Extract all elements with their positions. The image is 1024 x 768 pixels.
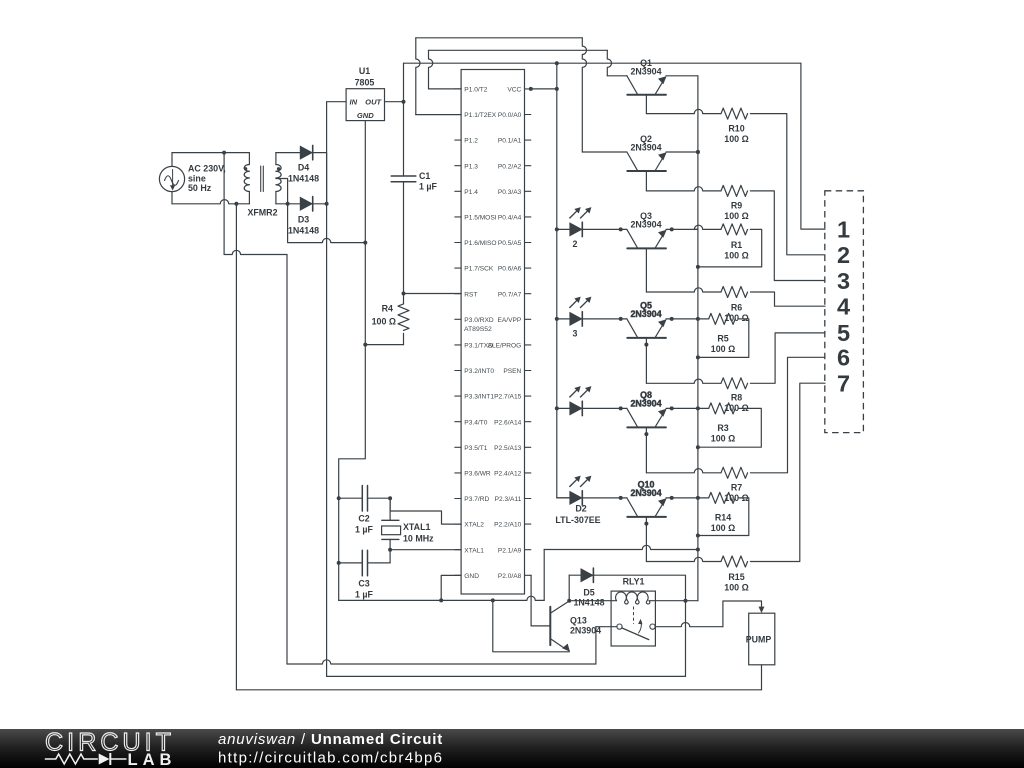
svg-text:6: 6 [837,345,850,371]
wire crystal bottom to C3 row [389,550,391,563]
svg-text:R4: R4 [382,304,393,314]
wire R5 loop back to chain [698,319,749,358]
svg-text:P1.2: P1.2 [464,138,478,145]
svg-text:100 Ω: 100 Ω [724,583,748,593]
svg-text:ALE/PROG: ALE/PROG [488,343,522,350]
resistor R10 100ohm [721,108,748,119]
wire MCU VCC pin to anode bus [531,88,557,90]
wire secondary bottom to D3 [276,203,300,205]
svg-text:XTAL1: XTAL1 [464,547,484,554]
svg-text:P3.4/T0: P3.4/T0 [464,419,487,426]
junction dot R4 return on GND drop [363,343,367,347]
svg-text:C2: C2 [358,514,369,524]
svg-text:P0.7/A7: P0.7/A7 [498,291,522,298]
junction dot gnd tie on chain [696,548,700,552]
CircuitLab logo symbol [45,754,98,764]
wire Q8 base lead [645,427,647,472]
wire secondary center tap [276,179,288,204]
svg-text:100 Ω: 100 Ω [724,211,748,221]
svg-text:100 Ω: 100 Ω [724,251,748,261]
wire Q8 row to R3 [698,407,709,409]
svg-text:P1.4: P1.4 [464,189,478,196]
wire R15 to connector pin 7 [750,383,825,561]
wire U1 OUT to VCC riser [385,101,404,103]
wire C2 right to crystal node [368,497,390,499]
wire R8 to connector pin 5 [750,333,825,383]
svg-text:2N3904: 2N3904 [630,399,661,409]
svg-text:1N4148: 1N4148 [573,597,604,607]
junction dot Q8 base pair [644,432,648,436]
wire relay output riser to coil-right node [685,601,687,677]
svg-text:OUT: OUT [365,97,382,106]
svg-text:P3.3/INT1: P3.3/INT1 [464,394,494,401]
svg-text:anuviswan / Unnamed Circuit: anuviswan / Unnamed Circuit [218,731,443,748]
wire LED D5 cathode to Q10 [582,497,627,499]
svg-text:C1: C1 [419,171,430,181]
LED D2 symbol [570,223,582,236]
svg-text:R15: R15 [728,572,744,582]
junction dot crystal top node [388,496,392,500]
wire LED D4 cathode to Q8 [582,407,627,409]
wire C3 left lead [339,562,362,564]
junction dot AC bottom / left long drop [234,202,238,206]
transformer phase dot secondary [277,167,280,170]
LED D3 row anode wire [557,318,570,320]
svg-text:U1: U1 [359,66,370,76]
junction dot emitter tap Q3 [670,227,674,231]
svg-text:R10: R10 [728,124,744,134]
wire AC bottom rail (hop over down-wire) [172,200,249,204]
relay actuation dashed line [633,607,635,625]
wire R6 to connector pin 4 [750,292,825,306]
wire tap-down long route to lower-left [223,153,225,255]
svg-text:P1.7/SCK: P1.7/SCK [464,266,494,273]
wire pump bottom to line C [761,665,763,690]
resistor R9 100ohm [721,185,748,196]
junction dot AC top / tap-down wire [222,151,226,155]
svg-text:P0.4/A4: P0.4/A4 [498,215,522,222]
svg-text:R6: R6 [731,303,742,313]
wire P1.0 to Q1 collector (inner top loop) [429,88,462,90]
svg-text:7: 7 [837,371,850,397]
junction dot XTAL1 node [388,548,392,552]
wire bottom line A to relay switch common [287,660,596,664]
wire relay NO contact to pump (hop over riser) [655,623,723,627]
svg-text:P3.7/RD: P3.7/RD [464,496,489,503]
svg-text:1 µF: 1 µF [355,590,374,600]
junction dot emitter tap Q8 [670,406,674,410]
svg-text:P1.1/T2EX: P1.1/T2EX [464,112,496,119]
voltage regulator U1 7805 box [346,89,384,121]
svg-text:3: 3 [573,328,578,338]
pump feed arrowhead [759,607,765,613]
wire +5V top rail [404,62,801,64]
junction dot collector tap Q8 [619,406,623,410]
svg-text:GND: GND [357,111,374,120]
relay RLY1 box [611,591,655,646]
junction dot emitter tap Q5 [670,317,674,321]
wire Q5 row to R5 [698,318,709,320]
wire Q10 base lead [645,517,647,562]
svg-text:P1.6/MISO: P1.6/MISO [464,240,496,247]
wire crystal node to XTAL2 pin [390,498,461,524]
LED D5 row anode wire [557,497,570,499]
crystal XTAL1 10MHz [389,498,391,520]
svg-text:3: 3 [837,268,850,294]
wire R3 loop back to chain [698,408,761,447]
svg-text:2: 2 [837,242,850,268]
junction dot Q13 emitter return [491,598,495,602]
wire D4 cathode to rectifier node [313,153,327,204]
wire U1 IN from rectifier node [327,102,347,204]
svg-text:P3.6/WR: P3.6/WR [464,471,491,478]
wire Q8 base to R7 (hop over chain) [646,469,721,473]
svg-text:7805: 7805 [355,78,375,88]
pump box [749,613,775,665]
wire RST pin to C1/R4 node [404,293,462,295]
svg-text:P2.2/A10: P2.2/A10 [494,522,521,529]
junction dot C3 bus [337,561,341,565]
svg-text:2: 2 [573,239,578,249]
wire Q3 base lead [645,248,647,292]
wire secondary top to D4 [276,152,300,154]
svg-text:IN: IN [350,97,358,106]
relay switch poles [617,624,622,629]
LED D5 symbol [570,492,582,505]
junction dot collector tap Q10 [619,496,623,500]
svg-text:P2.1/A9: P2.1/A9 [498,547,522,554]
wire emitter chain vertical [697,76,699,601]
svg-text:C3: C3 [358,579,369,589]
wire bottom line B to relay output riser [327,675,686,677]
svg-text:P0.3/A3: P0.3/A3 [498,189,522,196]
svg-text:P2.5/A13: P2.5/A13 [494,445,521,452]
svg-text:R1: R1 [731,240,742,250]
svg-text:AT89S52: AT89S52 [464,326,492,333]
transformer XFMR2 secondary winding [275,153,277,165]
svg-text:P2.7/A15: P2.7/A15 [494,394,521,401]
wire bottom line C to pump bottom [236,689,761,691]
wire pump feed [723,601,762,627]
resistor R4 100ohm (vertical) [403,294,405,304]
junction dot anode bus row Q8 [555,406,559,410]
wire GND rail under MCU (hop over Q13 base riser) [339,596,545,600]
LED D2 row anode wire [557,228,570,230]
wire Q10 emitter junction [666,497,698,499]
junction dot VCC bus top [555,87,559,91]
resistor R6 100ohm [721,287,748,298]
wire Q1 base to R10 (hop over chain) [646,109,721,113]
LED D4 row anode wire [557,407,570,409]
svg-text:P0.1/A1: P0.1/A1 [498,138,522,145]
resistor R1 100ohm [721,224,748,235]
svg-text:P2.3/A11: P2.3/A11 [495,496,522,503]
svg-text:R8: R8 [731,393,742,403]
junction dot anode bus row Q5 [555,317,559,321]
svg-text:http://circuitlab.com/cbr4bp6: http://circuitlab.com/cbr4bp6 [218,750,443,767]
wire R14 loop back to chain [698,498,749,536]
LED D3 symbol [570,313,582,326]
wire Q2 collector drop [582,38,586,152]
junction dot coil-right node [684,599,688,603]
wire gnd tie to emitter chain (hop over Q10 base) [544,545,698,549]
svg-text:Q13: Q13 [570,616,587,626]
wire jog right (hop over x236 drop) [224,250,287,254]
wire switch common riser [595,627,597,664]
wire Q5 base lead [645,338,647,383]
junction dot collector tap Q3 [619,227,623,231]
wire P2.0/A8 riser to rail end [543,550,545,601]
junction dot RST node [402,292,406,296]
svg-text:XTAL2: XTAL2 [464,522,484,529]
svg-text:R5: R5 [717,334,728,344]
transistor Q5 2N3904 [627,337,666,339]
transformer XFMR2 core [260,166,262,192]
junction dot emitter tap Q10 [670,496,674,500]
svg-text:P2.6/A14: P2.6/A14 [494,419,521,426]
wire rectifier node long drop to line B [326,204,328,677]
MCU pin stubs [455,88,461,90]
wire AC source left vertical bottom [171,192,173,204]
svg-text:100 Ω: 100 Ω [372,317,396,327]
junction dot rectifier output node [325,202,329,206]
svg-text:P0.5/A5: P0.5/A5 [498,240,522,247]
wire LED D3 cathode to Q5 [582,318,627,320]
svg-text:P2.4/A12: P2.4/A12 [494,471,521,478]
svg-text:50 Hz: 50 Hz [188,183,212,193]
svg-text:P3.2/INT0: P3.2/INT0 [464,368,494,375]
resistor R8 100ohm [721,378,748,389]
wire Q3 emitter row to R1 (hop over chain) [694,225,721,229]
relay coil [616,592,650,604]
wire P2.0 pin to Q13 base riser [530,574,532,576]
wire Q2 base lead [645,171,647,191]
svg-text:LTL-307EE: LTL-307EE [555,515,600,525]
wire relay common to switch riser [596,626,617,628]
svg-text:VCC: VCC [507,87,521,94]
wire Q2 emitter to chain [666,151,698,153]
wire D5 cathode to coil-right node [593,575,685,601]
svg-text:2N3904: 2N3904 [630,309,661,319]
wire Q13 base riser [530,575,532,626]
footer bar [0,729,1024,768]
svg-text:P0.2/A2: P0.2/A2 [498,163,522,170]
junction dot Q10 base pair [644,522,648,526]
wire Q5 base to R8 (hop over chain) [646,379,721,383]
diode D4 1N4148 [300,146,312,159]
wire Q10 base to R15 (hop over chain) [646,557,721,561]
wire Q8 emitter junction [666,407,698,409]
svg-text:GND: GND [464,573,479,580]
svg-text:D3: D3 [298,215,309,225]
wire MCU GND pin drop [441,575,461,600]
svg-text:2N3904: 2N3904 [630,488,661,498]
wire +5V to connector pin 1 [801,63,825,229]
wire Q13 emitter return to GND rail [493,600,570,651]
junction dots on emitter chain [696,150,700,154]
svg-text:EA/VPP: EA/VPP [497,317,521,324]
svg-text:R14: R14 [715,513,731,523]
wire VCC riser to +5V rail [403,63,405,101]
svg-text:P1.5/MOSI: P1.5/MOSI [464,215,496,222]
junction dot Q5 base pair [644,343,648,347]
wire center-tap to U1 GND (hop over rectifier drop) [288,204,366,243]
junction dot GND pin drop [439,598,443,602]
wire Q13 collector node to D5 anode [568,575,570,601]
capacitor C1 1uF [403,102,405,176]
svg-text:P1.3: P1.3 [464,163,478,170]
svg-text:1N4148: 1N4148 [288,226,319,236]
wire Q1 emitter to chain [666,75,698,77]
wire XTAL1 pin row [390,549,461,551]
svg-text:sine: sine [188,174,206,184]
resistor R14 100ohm [709,492,736,503]
junction dot Q1/Q2 emitters [696,150,700,154]
diode D3 1N4148 [300,198,312,211]
svg-text:RLY1: RLY1 [623,577,645,587]
svg-text:1: 1 [837,216,850,242]
resistor R15 100ohm [721,556,748,567]
microcontroller U2 AT89S52 box [461,70,524,595]
junction dot U1 OUT / C1 [402,100,406,104]
wire R10 to connector pin 2 [750,114,825,255]
svg-text:10 MHz: 10 MHz [403,534,434,544]
junction dot C2 bus [337,496,341,500]
svg-text:P0.0/A0: P0.0/A0 [498,112,522,119]
wire AC top rail [172,152,249,154]
svg-text:P1.0/T2: P1.0/T2 [464,87,487,94]
transistor Q3 2N3904 [627,247,666,249]
diode D5 1N4148 (flyback) [569,574,581,576]
svg-text:D2: D2 [575,504,586,514]
svg-text:1N4148: 1N4148 [288,174,319,184]
transformer XFMR2 primary winding [248,153,250,165]
junction dot +5V rail / MCU VCC drop [555,61,559,65]
wire Q10 row to R14 [698,497,709,499]
svg-text:P3.0/RXD: P3.0/RXD [464,317,494,324]
svg-text:2N3904: 2N3904 [630,220,661,230]
svg-text:PSEN: PSEN [503,368,521,375]
svg-text:R3: R3 [717,423,728,433]
wire Q3 base to R6 (hop over chain) [646,288,721,292]
svg-text:2N3904: 2N3904 [630,143,661,153]
wire long vertical x287 down to bottom line A [286,255,288,665]
LED D4 symbol [570,402,582,415]
wire R4 bottom to GND drop [365,344,403,346]
wire AC source left vertical top [171,153,173,167]
relay switch blade [622,628,649,640]
wire R1 loop back to chain [698,229,762,267]
svg-text:1 µF: 1 µF [355,525,374,535]
svg-text:1 µF: 1 µF [419,182,438,192]
transistor Q1 2N3904 [627,94,666,96]
wire Q2 base to R9 (hop over chain) [646,187,721,191]
wire LED D2 cathode to Q3 [582,228,627,230]
relay coil wire right to node [649,600,698,602]
connector J1 dashed box [825,191,864,433]
svg-text:100 Ω: 100 Ω [711,434,735,444]
svg-text:5: 5 [837,320,850,346]
svg-text:P2.0/A8: P2.0/A8 [498,573,522,580]
transistor Q2 2N3904 [627,170,666,172]
svg-text:PUMP: PUMP [746,635,772,645]
resistor R5 100ohm [709,313,736,324]
svg-text:RST: RST [464,291,477,298]
wire LED anode bus [557,89,570,498]
svg-text:R7: R7 [731,483,742,493]
capacitor C2 1uF plates [361,486,363,512]
resistor R3 100ohm [709,403,736,414]
svg-text:100 Ω: 100 Ω [711,344,735,354]
wire P1.1 to Q2 collector (outer top loop) [416,114,461,116]
wire Q5 emitter junction [666,318,698,320]
wire Q1 collector drop [607,50,611,76]
wire Q3 emitter junction [666,228,698,230]
junction dot Q13 collector / coil node [567,599,571,603]
capacitor C3 1uF plates [361,550,363,576]
wire R9 to connector pin 3 [750,191,825,281]
junction dot center-tap gnd at U1 GND wire [363,241,367,245]
svg-text:R9: R9 [731,201,742,211]
junction dot collector tap Q5 [619,317,623,321]
svg-text:4: 4 [837,294,850,320]
wire R7 to connector pin 6 [750,357,825,473]
svg-text:LAB: LAB [128,751,177,768]
wire U1 GND down the left of MCU [339,121,366,601]
wire D3 cathode to rectifier node [313,203,327,205]
svg-text:D4: D4 [298,163,309,173]
svg-text:XTAL1: XTAL1 [403,522,431,532]
svg-text:XFMR2: XFMR2 [247,208,277,218]
wire Q13 base lead [531,625,550,627]
transistor Q10 2N3904 [627,516,666,518]
transformer phase dot primary [244,167,247,170]
svg-text:P0.6/A6: P0.6/A6 [498,266,522,273]
relay coil wire left [569,600,616,602]
svg-text:AC 230V,: AC 230V, [188,164,226,174]
svg-text:2N3904: 2N3904 [630,67,661,77]
wire Q1 base lead [645,95,647,114]
wire long vertical x236 down to bottom line C [235,204,237,690]
junction dot center tap on bottom rail [286,202,290,206]
junction dot anode bus row Q3 [555,227,559,231]
resistor R7 100ohm [721,467,748,478]
svg-text:100 Ω: 100 Ω [711,523,735,533]
wire crystal left bus C2 row [339,497,362,499]
wire VCC drop from +5V rail [556,63,558,89]
AC voltage source V1 230V sine [159,166,184,191]
svg-text:P3.5/T1: P3.5/T1 [464,445,487,452]
transistor Q13 2N3904 [549,607,551,645]
transistor Q8 2N3904 [627,426,666,428]
wire C3 right lead [368,562,390,564]
svg-text:D5: D5 [583,587,594,597]
svg-text:100 Ω: 100 Ω [724,134,748,144]
junction dot VCC stub [529,87,533,91]
